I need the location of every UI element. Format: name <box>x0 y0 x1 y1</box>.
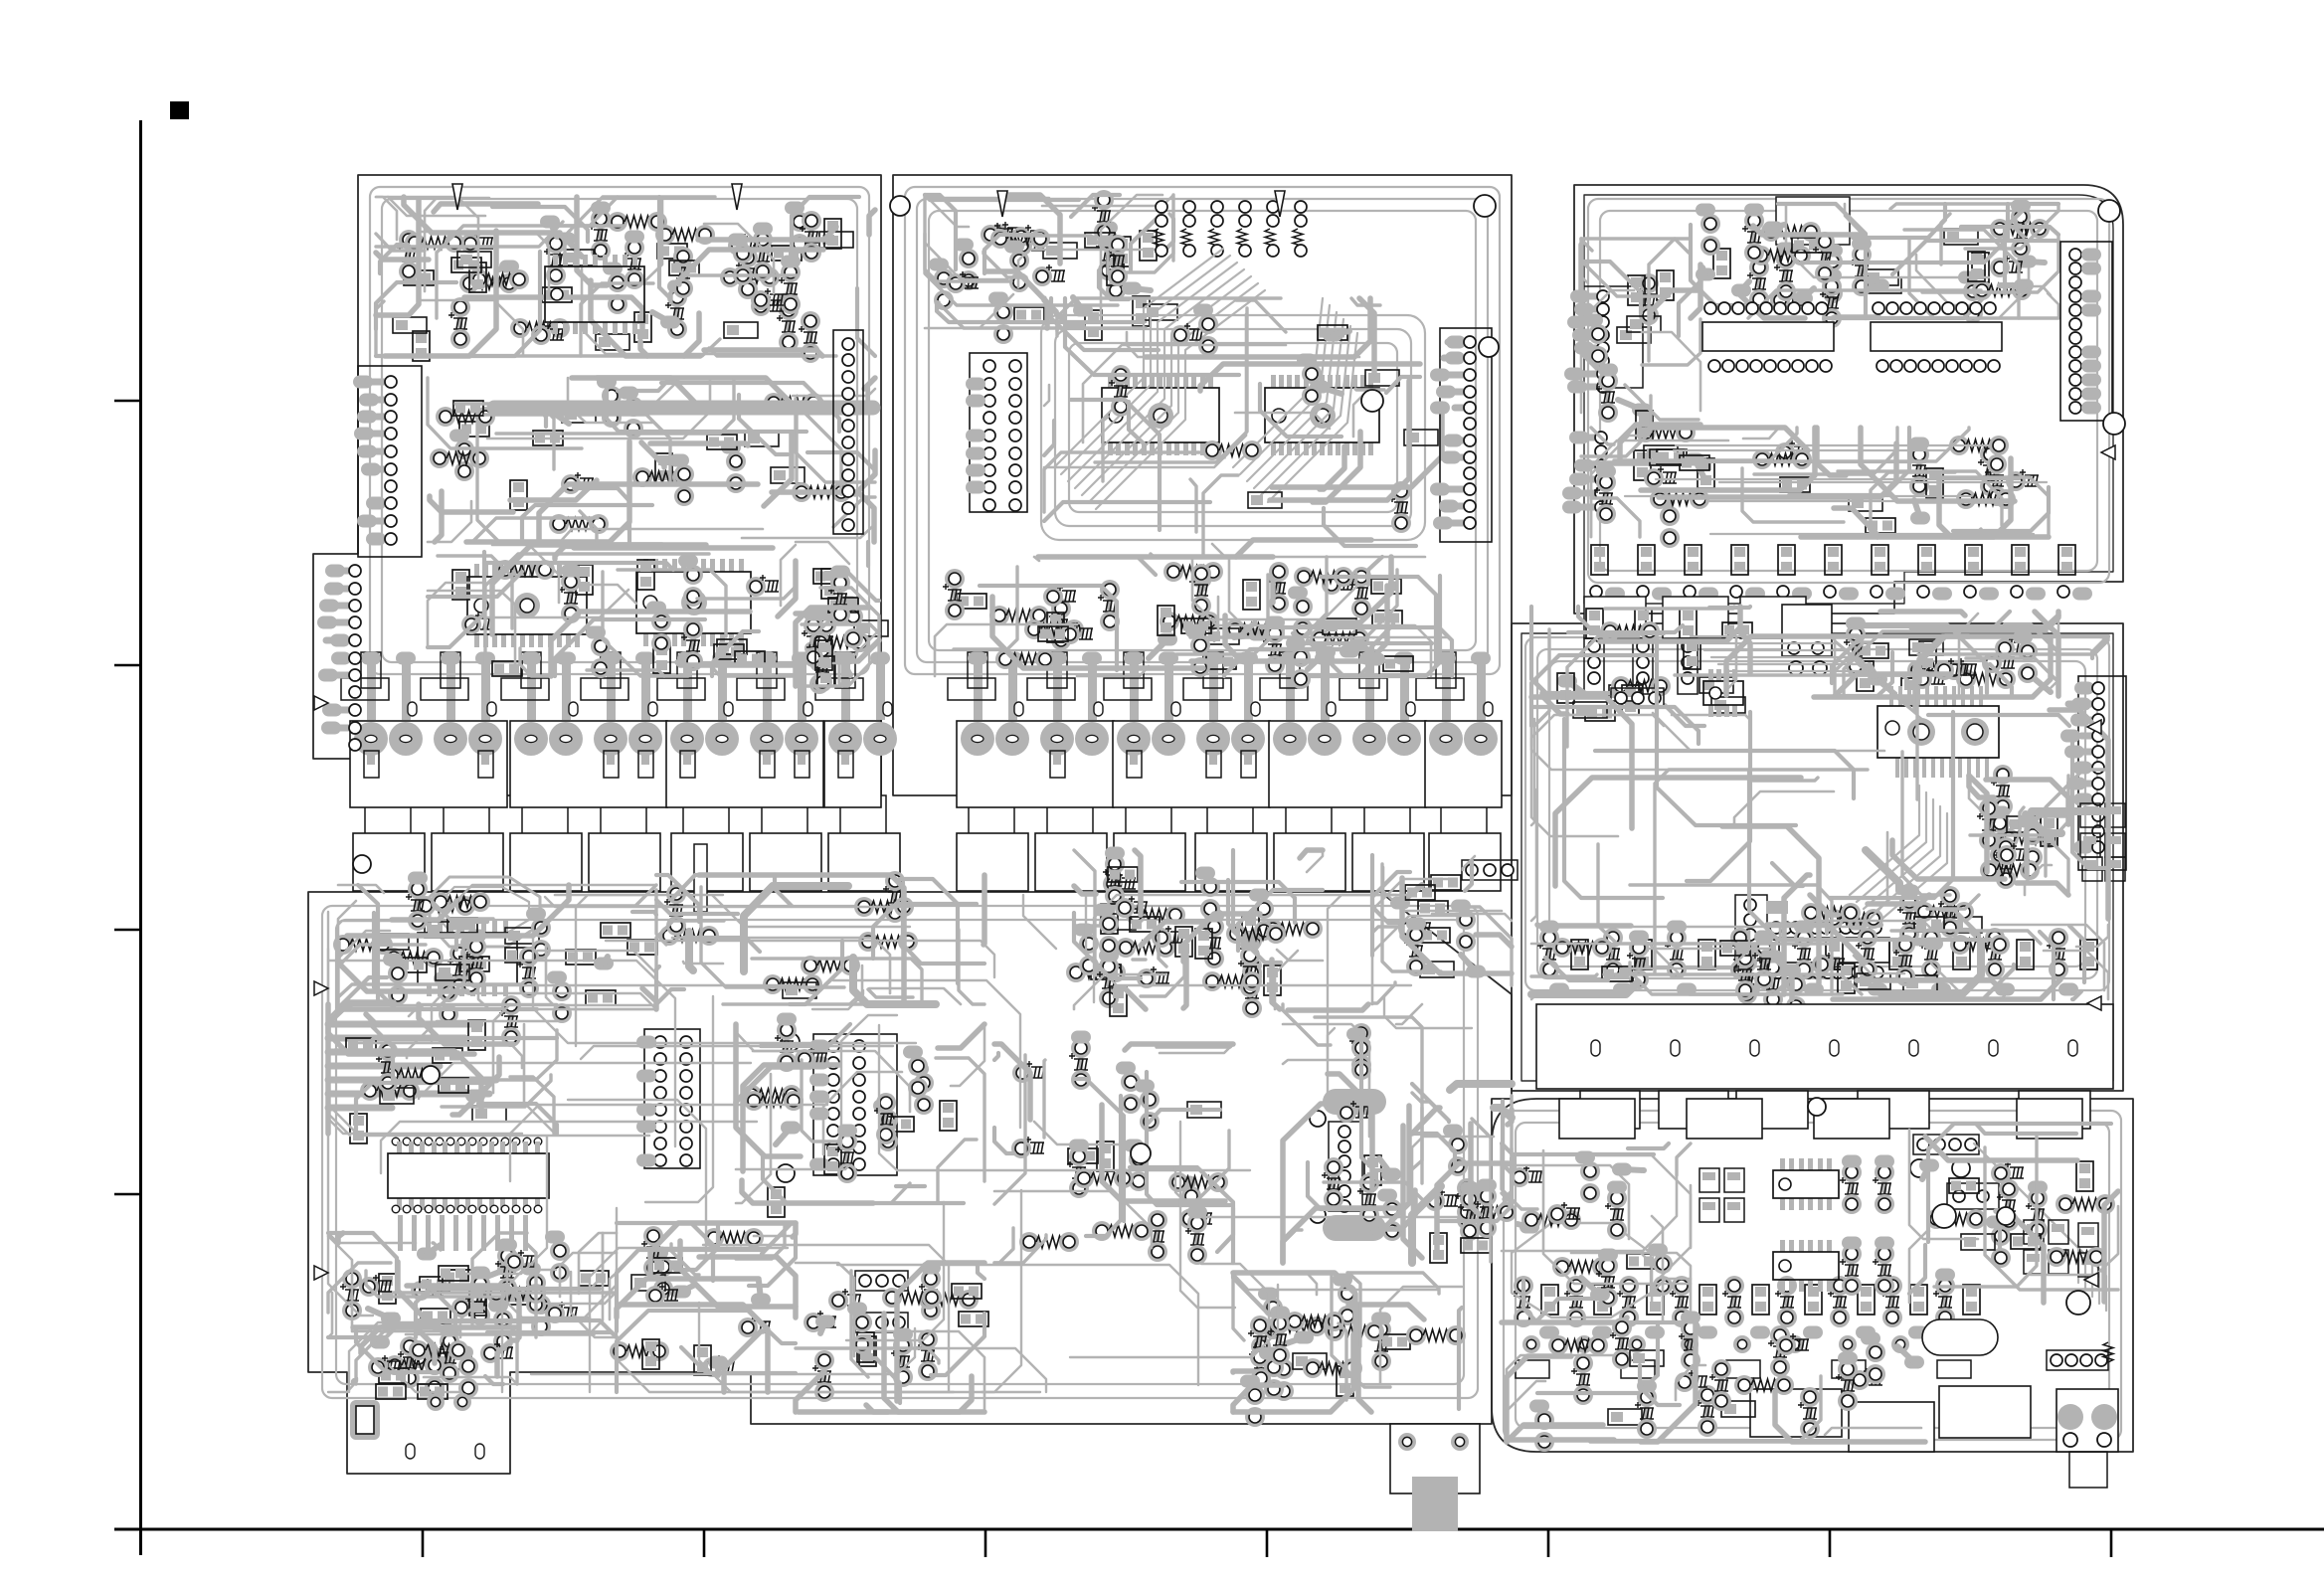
board A mid-left connector J1 <box>353 366 422 557</box>
mounting holes board F <box>1808 1098 1826 1116</box>
board A mid cluster and traces <box>428 376 875 543</box>
board B outline (top-centre PCB) <box>893 175 1512 795</box>
board E right connector cluster <box>1372 855 1518 1004</box>
board D right connector strip J7 <box>2060 676 2126 870</box>
frame: bottom border line <box>114 1528 2324 1531</box>
guard ring traces board C <box>1588 199 2109 583</box>
board C bottom component rows <box>1590 545 2092 601</box>
frame: left tick marks <box>114 401 140 1194</box>
board E outline (large bottom PCB) <box>308 892 1512 1474</box>
board A ICs U2 U3 <box>428 545 796 678</box>
board B ICs U4 U5 with trace fans <box>1041 249 1442 557</box>
board E bottom-left tab contents <box>350 1384 484 1459</box>
edge marker triangles <box>314 445 2115 1287</box>
board D bottom component row <box>1531 921 2108 1017</box>
board B left connector J4 <box>966 353 1027 512</box>
board A component cluster top <box>376 197 875 363</box>
board F header J11 <box>1910 1135 1979 1177</box>
mounting holes board B <box>890 196 910 216</box>
board E centre connector J9 <box>736 1013 984 1218</box>
guard ring traces board B <box>905 187 1500 674</box>
connector housings under board C <box>1584 597 1806 638</box>
guard ring traces board E <box>322 906 1478 1398</box>
guard ring traces board A <box>370 187 869 674</box>
board D bottom connector band <box>1536 1004 2113 1089</box>
connector housings under board D <box>1580 1091 2090 1129</box>
thick power bus on board A <box>494 401 873 416</box>
frame: bottom tick marks <box>423 1529 2111 1557</box>
board F stadium cutout <box>1922 1319 1998 1355</box>
board D big IC U9 <box>1691 636 1999 923</box>
board D right smd stacks <box>1969 765 2125 895</box>
alignment marker triangles board A <box>452 184 462 210</box>
board C top cluster <box>1691 197 2058 328</box>
board E crystals X1 X2 and connector J10 <box>1283 1004 1422 1263</box>
board C outline (top-right PCB) <box>1574 185 2123 614</box>
board A outline (top-left PCB) <box>313 175 881 795</box>
board C mid sparse band <box>1591 428 2049 548</box>
board E bottom-middle cluster <box>610 1223 796 1392</box>
board E long global traces <box>328 895 1472 1392</box>
board F top edge connector tabs <box>1559 1099 2082 1139</box>
board E left horizontal traces <box>328 995 557 1143</box>
board C right pin connector J6 <box>2060 200 2125 435</box>
board E bottom connector cluster <box>796 1262 988 1413</box>
board E IC U11 cluster top-left <box>333 872 657 1025</box>
board C left connector cluster <box>1562 239 1700 514</box>
board B top pad rows <box>1154 201 1307 257</box>
board F headphone jack <box>2047 1342 2118 1488</box>
board F bottom jack boxes <box>1507 1312 2031 1453</box>
connector housings under boards A and B <box>353 795 1501 891</box>
frame: left border line <box>139 120 142 1555</box>
board B middle cluster band <box>935 557 1452 689</box>
board F outline (bottom-right PCB) <box>1492 1099 2133 1452</box>
board D small IC U8 <box>1703 669 1743 717</box>
RCA jack pad groups on board A <box>341 652 897 808</box>
board F bottom capacitor rows <box>1512 1269 1981 1379</box>
board F right smd cluster with diagonal bundle <box>1909 1124 2118 1311</box>
alignment marker triangles board B <box>997 191 1007 217</box>
board B top-left cluster <box>925 190 1177 344</box>
board F left trace loops <box>1502 1143 1691 1322</box>
board D outline (mid-right PCB) <box>1512 623 2123 1091</box>
narrow vertical rect at board E top edge <box>694 844 707 912</box>
board C wide ICs U6 U7 <box>1702 302 2002 372</box>
guard ring traces board F <box>1504 1111 2121 1440</box>
mounting holes board E <box>353 855 371 873</box>
RCA jack pad groups on board B <box>948 652 1502 808</box>
board E top-middle traces <box>656 871 984 1004</box>
board F ICs U13 U14 <box>1699 1155 1894 1297</box>
board E connector J8 (vertical, left-middle) <box>636 1029 700 1168</box>
board A right pin strip J3 <box>796 330 888 694</box>
board E DIP IC U12 with pin rows <box>328 1138 617 1351</box>
board E right dense region <box>1412 1084 1517 1263</box>
board E top-right cluster <box>1066 847 1323 1019</box>
board D mid connector and IC U10 <box>1735 885 1982 979</box>
guard ring traces board D <box>1525 637 2109 990</box>
board B right connector strip J5 <box>1430 328 1492 542</box>
board D global traces <box>1531 636 2108 994</box>
board E lower-left cluster above tab <box>353 1324 517 1399</box>
board E octagonal trace loops top-left <box>430 877 540 947</box>
board D AV connector <box>1782 605 2058 708</box>
IC U1 on board A <box>545 255 644 334</box>
frame: black index square <box>170 101 189 119</box>
board E bottom RCA connector tab <box>1233 1273 1480 1531</box>
board E centre-right cluster <box>994 1031 1233 1266</box>
board A left protruding connector J2 <box>317 565 361 752</box>
board D top-left capacitor stacks <box>1531 607 1752 726</box>
